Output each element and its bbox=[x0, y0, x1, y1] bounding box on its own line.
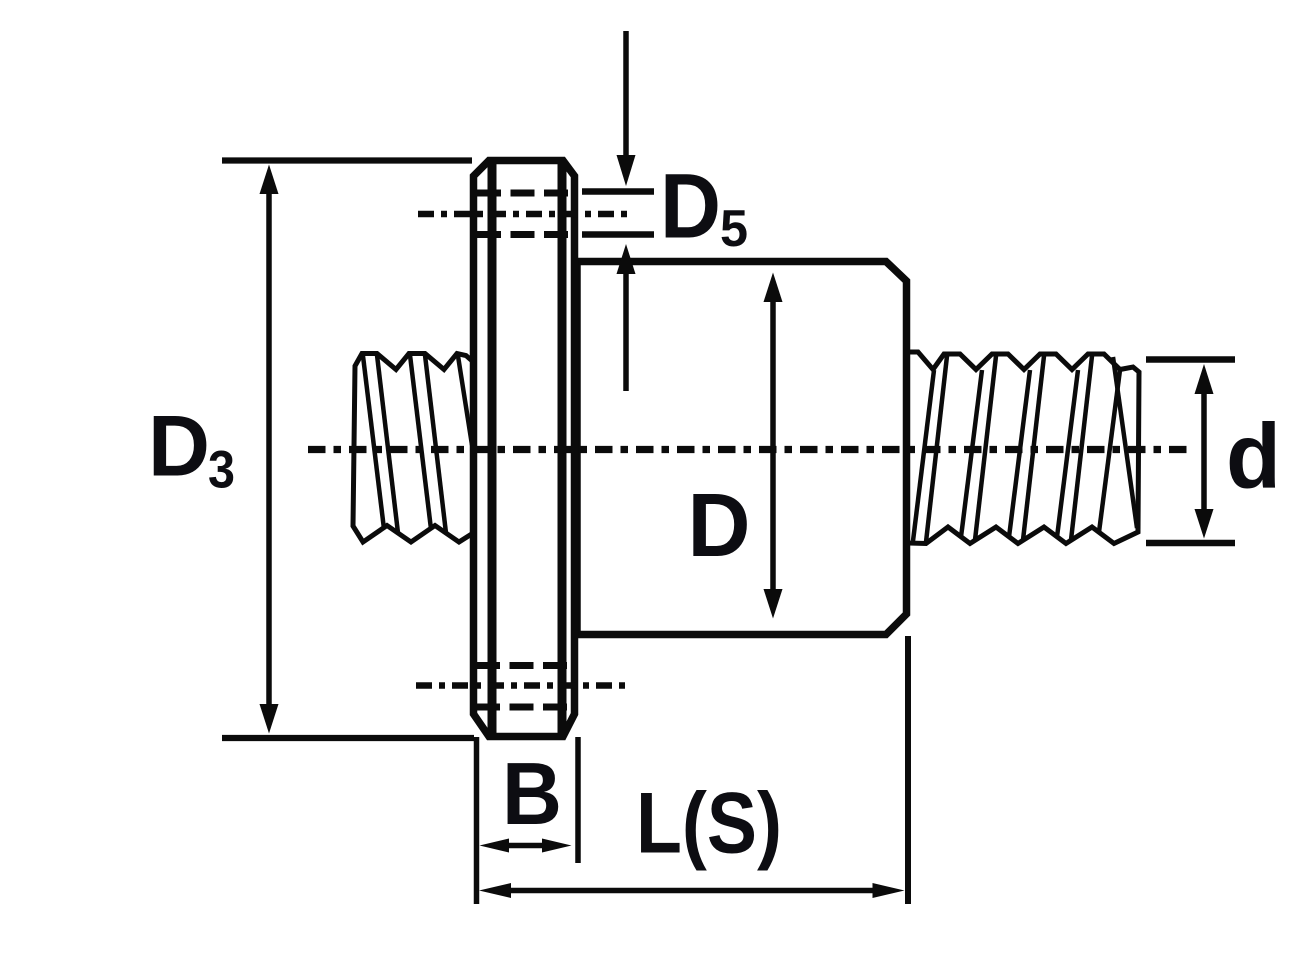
svg-text:d: d bbox=[1226, 406, 1281, 508]
svg-text:B: B bbox=[502, 744, 562, 843]
svg-text:3: 3 bbox=[208, 441, 235, 500]
svg-text:D: D bbox=[148, 399, 210, 495]
svg-text:5: 5 bbox=[720, 200, 748, 258]
svg-text:D: D bbox=[688, 476, 751, 576]
svg-text:D: D bbox=[660, 156, 721, 258]
svg-text:L(S): L(S) bbox=[636, 776, 782, 872]
